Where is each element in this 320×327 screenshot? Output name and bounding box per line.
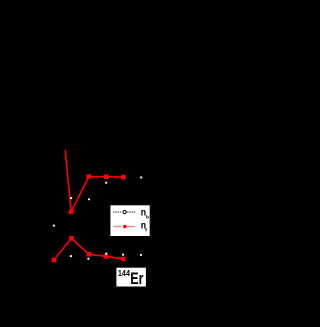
legend red line n_f right segment <box>127 226 135 228</box>
legend dashed line n_b right segment <box>127 211 135 213</box>
bottom panel white circle marker 5 <box>122 254 124 256</box>
top panel red square marker 2 <box>87 174 92 179</box>
top panel white circle marker 3 <box>105 182 107 184</box>
top panel red square marker 4 <box>121 175 126 180</box>
top panel white circle marker 2 <box>88 198 90 200</box>
top panel white circle marker 4 <box>140 176 142 178</box>
top panel red square marker 1 <box>69 210 74 215</box>
legend open circle marker <box>123 211 126 214</box>
legend red square marker <box>123 225 126 228</box>
svg-text:b: b <box>146 214 149 220</box>
144Er nucleus label box <box>116 268 145 287</box>
bottom panel white circle marker 2 <box>70 255 72 257</box>
top panel red curve n_f <box>65 150 123 212</box>
top panel red square marker 3 <box>104 174 109 179</box>
legend red line n_f left segment <box>114 226 122 228</box>
bottom panel red square marker 4 <box>104 254 109 259</box>
svg-text:Er: Er <box>130 269 143 288</box>
bottom panel red square marker 5 <box>121 257 126 262</box>
bottom panel red square marker 2 <box>69 236 74 241</box>
bottom panel red curve n_f <box>54 238 124 260</box>
svg-text:144: 144 <box>118 269 131 278</box>
bottom panel white circle marker 4 <box>105 253 107 255</box>
bottom panel white circle marker 1 <box>53 225 55 227</box>
bottom panel white circle marker 3 <box>87 258 89 260</box>
bottom panel red square marker 3 <box>87 252 92 257</box>
bottom panel red square marker 1 <box>52 258 57 263</box>
legend box <box>110 205 149 236</box>
legend dashed line n_b left segment <box>113 211 121 213</box>
top panel white circle marker 1 <box>70 197 72 199</box>
bottom panel white circle marker 6 <box>140 254 142 256</box>
